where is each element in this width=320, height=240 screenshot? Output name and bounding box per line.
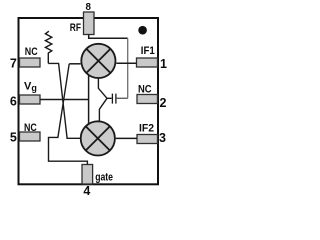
- capacitor C right lead: [117, 97, 128, 99]
- svg-text:RF: RF: [70, 22, 81, 34]
- svg-text:1: 1: [160, 57, 167, 71]
- capacitor C left lead: [107, 97, 112, 99]
- svg-text:5: 5: [10, 130, 17, 144]
- pin 6 (Vg) pad: [20, 95, 41, 104]
- wire: Vg rail from pin 6: [40, 99, 89, 101]
- svg-text:2: 2: [160, 96, 167, 110]
- pin 3 (IF2) pad: [137, 135, 158, 144]
- mixer U2 (bottom) circle: [81, 121, 115, 155]
- svg-text:6: 6: [10, 94, 17, 108]
- pin 7 (NC) pad: [20, 58, 41, 67]
- pin 2 (NC) pad: [137, 95, 158, 104]
- wire: IF2 from bottom mixer to pin 3: [116, 137, 137, 139]
- mixer U1 (top) circle: [81, 44, 115, 78]
- wire: crossover diagonal, resistor to bottom mixer input: [48, 63, 80, 138]
- svg-text:IF2: IF2: [139, 122, 154, 134]
- wire: RF vertical drop to coupling cap (grey): [127, 38, 129, 98]
- package outline: [19, 18, 159, 184]
- wire: IF1 from top mixer to pin 1: [116, 62, 136, 64]
- svg-text:3: 3: [159, 131, 166, 145]
- pin 8 (RF) pad: [84, 12, 95, 35]
- svg-text:IF1: IF1: [141, 45, 155, 57]
- capacitor C plates: [112, 94, 116, 104]
- wire: crossover diagonal, top mixer input to gate pin 4: [49, 64, 88, 165]
- wire: bottom mixer upper-right leg to cap: [99, 98, 107, 122]
- wire: top mixer left input: [69, 63, 80, 65]
- mixer U2 X: [86, 126, 110, 150]
- mixer U1 X: [86, 49, 110, 73]
- svg-text:NC: NC: [138, 84, 152, 96]
- svg-text:4: 4: [83, 184, 90, 196]
- resistor R (gate bias): [45, 31, 51, 63]
- svg-text:7: 7: [10, 57, 17, 71]
- wire: pin8 lead down and RF feed to the right: [89, 35, 128, 39]
- pin 4 (gate) pad: [82, 165, 93, 185]
- svg-text:NC: NC: [25, 46, 38, 58]
- pin 1 (IF1) pad: [137, 58, 158, 67]
- svg-text:NC: NC: [24, 122, 37, 134]
- pin 5 (NC) pad: [20, 132, 41, 141]
- svg-text:gate: gate: [95, 171, 113, 183]
- svg-text:8: 8: [85, 2, 91, 13]
- svg-text:Vg: Vg: [24, 80, 37, 93]
- pin 1 indicator dot: [138, 26, 147, 35]
- wire: top mixer lower-right leg to cap: [98, 78, 107, 99]
- wire: vertical link between mixers (left legs): [88, 75, 90, 125]
